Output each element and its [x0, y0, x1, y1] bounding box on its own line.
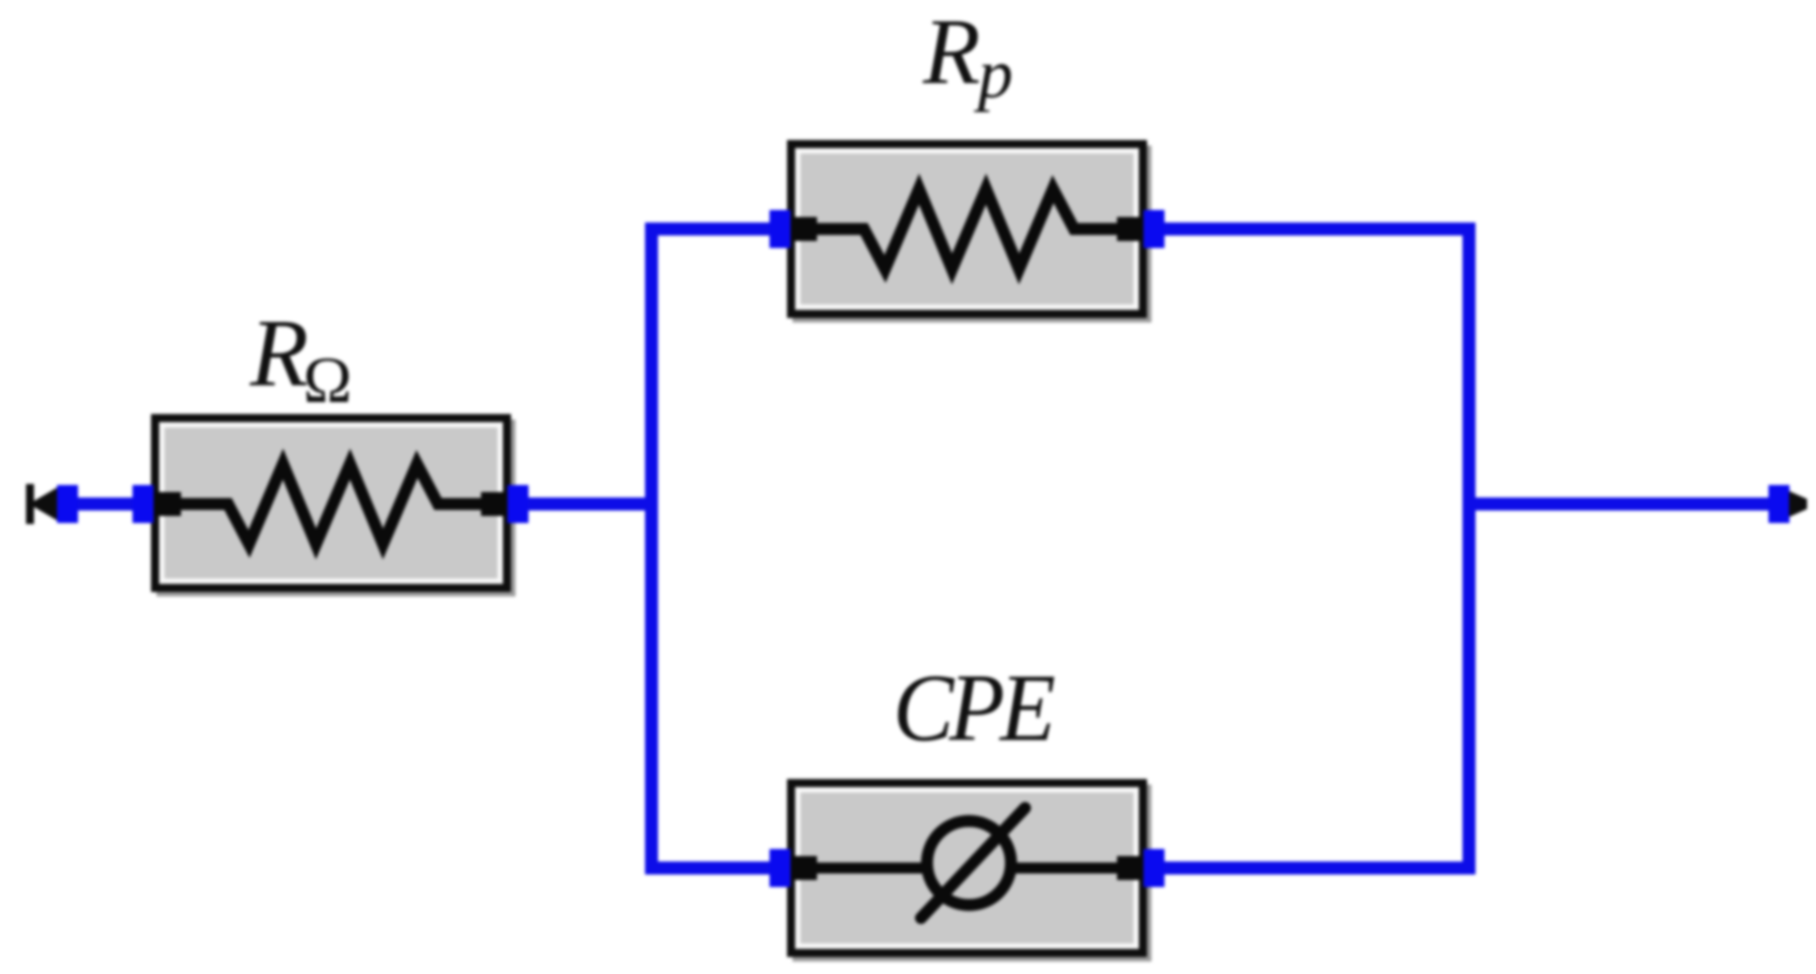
pad: R_p left pin: [770, 210, 791, 248]
CPE (constant phase element box): [787, 783, 1148, 958]
CPE left pin stub: [787, 856, 817, 880]
wire: node B to right terminal: [1469, 498, 1779, 511]
R_p left pin stub: [787, 217, 817, 241]
wire: bottom branch left horizontal to CPE: [645, 862, 780, 875]
CPE slash: [921, 808, 1025, 918]
wire: bottom branch right horizontal from CPE to right riser: [1154, 862, 1476, 875]
terminal T2 (right output port): [1789, 491, 1807, 517]
wire: left vertical branch riser (node A): [645, 223, 658, 875]
pad: R_p right pin: [1144, 210, 1165, 248]
svg-text:CPE: CPE: [893, 656, 1055, 762]
wire: top branch left horizontal to R_p: [645, 223, 780, 236]
wire: R_ohm to T-junction node A: [518, 498, 658, 511]
wire: right vertical branch riser (node B): [1463, 223, 1476, 875]
CPE circle symbol: [927, 821, 1011, 905]
svg-text:R: R: [922, 0, 980, 104]
svg-text:p: p: [973, 36, 1013, 113]
R_omega right pin stub: [481, 492, 511, 516]
resistor R_p (polarization resistance box): [787, 144, 1148, 319]
svg-text:R: R: [249, 299, 309, 406]
svg-text:Ω: Ω: [303, 344, 352, 417]
pad: R_omega left pin: [133, 485, 154, 523]
pad: left terminal node: [57, 485, 78, 523]
CPE lead wire: [810, 863, 1124, 874]
terminal T1 (left input port): [26, 484, 58, 524]
R_omega left pin stub: [151, 492, 181, 516]
R_p right pin stub: [1117, 217, 1147, 241]
pad: CPE left pin: [770, 849, 791, 887]
wire: left terminal to R_ohm: [60, 498, 145, 511]
pad: right terminal node: [1769, 485, 1790, 523]
wire: top branch right horizontal from R_p to right riser: [1154, 223, 1476, 236]
pad: R_omega right pin: [508, 485, 529, 523]
R_omega zigzag element: [178, 464, 486, 544]
R_p zigzag element: [814, 189, 1122, 269]
CPE right pin stub: [1117, 856, 1147, 880]
resistor R_omega (series resistance box): [151, 418, 512, 593]
pad: CPE right pin: [1144, 849, 1165, 887]
